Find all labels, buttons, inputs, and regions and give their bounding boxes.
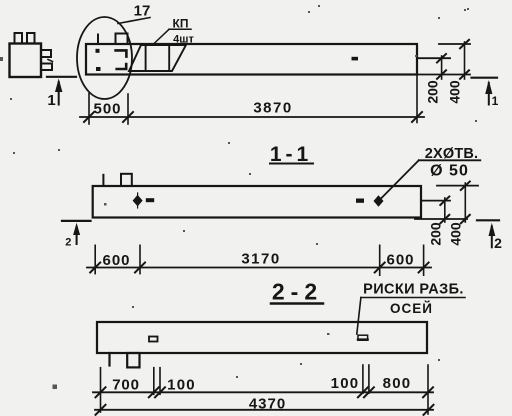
extension line at x=128 xyxy=(127,94,129,124)
svg-text:500: 500 xyxy=(93,101,121,118)
svg-text:3870: 3870 xyxy=(253,100,292,117)
tab lower on end-plate xyxy=(41,64,52,71)
stud left on end-plate xyxy=(15,33,23,44)
svg-text:600: 600 xyxy=(386,252,414,269)
section marker 2 (right) line xyxy=(477,219,499,221)
tick on beam top (1-1) xyxy=(102,175,104,186)
section marker 1 (left) arrow xyxy=(58,82,60,105)
dimension line (top view) xyxy=(80,116,424,118)
section marker 2 (right) arrow xyxy=(491,227,493,248)
svg-text:4370: 4370 xyxy=(249,396,286,413)
bottom extension line (1-1) xyxy=(415,218,467,220)
weld plate inner line 1 xyxy=(145,45,147,71)
step extension line (1-1 right end) xyxy=(421,200,450,202)
leader line to hole label xyxy=(379,160,419,201)
anchor dot upper xyxy=(96,49,100,53)
embed dash mark (top view right) xyxy=(352,57,359,61)
dim 400 line (top view) xyxy=(464,42,466,79)
mark rectangle (riska) xyxy=(358,335,368,340)
detail ellipse xyxy=(77,17,132,99)
step extension line (top view right end) xyxy=(417,57,450,59)
svg-text:800: 800 xyxy=(383,375,412,392)
end-plate cross-section (top-left) xyxy=(10,44,42,78)
small square on beam top (in detail) xyxy=(116,34,128,45)
ticks (2-2 row1) xyxy=(96,387,106,397)
svg-text:2: 2 xyxy=(65,237,71,249)
stud right on end-plate xyxy=(27,33,35,44)
leader line to mark xyxy=(357,298,361,335)
small mark between tabs xyxy=(48,60,53,62)
svg-text:400: 400 xyxy=(447,80,463,104)
extension line at 95 xyxy=(94,245,96,273)
extension line at 153.8 xyxy=(153,368,155,395)
dim 200 line (top view) xyxy=(441,56,443,79)
ticks (1-1 dims) xyxy=(90,263,100,273)
extension line at x=89 xyxy=(88,94,90,125)
top extension line xyxy=(439,43,470,45)
hook mark lower xyxy=(117,64,127,69)
svg-text:700: 700 xyxy=(112,377,139,394)
weld plate KP parallelogram xyxy=(129,45,186,71)
section marker 2 (left) line xyxy=(62,220,91,222)
hook mark upper xyxy=(116,50,127,56)
extension line at 423.6 xyxy=(423,245,425,275)
svg-text:2: 2 xyxy=(494,235,502,251)
beam section 2-2 xyxy=(97,322,427,353)
extension line at 379.7 xyxy=(379,245,381,275)
dimension line row 2 (2-2) xyxy=(95,409,433,411)
extension line at 160 xyxy=(159,368,161,395)
tick below beam (2-2) xyxy=(108,353,110,366)
tick at 417 xyxy=(412,112,422,122)
svg-text:ОСЕЙ: ОСЕЙ xyxy=(390,301,433,316)
dim 200 line (1-1) xyxy=(444,198,446,222)
svg-text:РИСКИ РАЗБ.: РИСКИ РАЗБ. xyxy=(363,282,464,298)
svg-text:200: 200 xyxy=(425,80,441,104)
svg-text:Ø 50: Ø 50 xyxy=(430,163,469,180)
ticks (2-2 row2) xyxy=(96,405,106,415)
beam section 1-1 xyxy=(93,186,421,218)
svg-text:1: 1 xyxy=(47,92,55,109)
svg-text:КП: КП xyxy=(173,16,189,30)
svg-text:100: 100 xyxy=(331,375,360,392)
section marker 1 (right) line xyxy=(472,77,498,79)
small square on beam top (1-1) xyxy=(121,174,132,186)
section marker 2 (left) arrow xyxy=(76,227,78,244)
beam elevation (top view) xyxy=(86,44,417,75)
extension line at 362.9 xyxy=(362,365,364,393)
extension line at x=417 xyxy=(416,75,418,123)
tick on beam top (in detail) xyxy=(97,35,99,45)
extension line at 368.9 xyxy=(368,365,370,393)
diamond mark right / leader arrowhead (1-1) xyxy=(374,195,384,207)
svg-text:17: 17 xyxy=(134,3,151,20)
svg-text:1: 1 xyxy=(492,94,499,108)
diamond mark left (1-1) xyxy=(133,195,143,207)
top extension line (1-1) xyxy=(437,185,478,187)
svg-text:400: 400 xyxy=(448,222,464,246)
dimension line (1-1) xyxy=(87,267,431,269)
bottom extension line xyxy=(417,74,470,76)
anchor dot lower xyxy=(96,67,101,71)
dash mark left (1-1) xyxy=(146,198,154,202)
tick at 128 xyxy=(123,112,133,122)
tab upper on end-plate xyxy=(41,50,51,57)
extension line at 428 xyxy=(427,365,429,414)
svg-text:2-2: 2-2 xyxy=(272,279,323,305)
tick at 89 xyxy=(84,112,94,122)
dimension line row 1 (2-2) xyxy=(93,391,433,393)
svg-text:200: 200 xyxy=(428,222,444,246)
dash mark right (1-1) xyxy=(356,199,364,203)
small mark inside (2-2 left) xyxy=(149,337,158,342)
weld plate inner line 2 xyxy=(168,45,170,71)
svg-text:3170: 3170 xyxy=(241,250,280,267)
dim 400 line (1-1) xyxy=(464,183,466,222)
svg-text:100: 100 xyxy=(167,377,196,394)
section marker 1 (left) line xyxy=(47,76,76,78)
square below beam (2-2) xyxy=(127,353,139,367)
section marker 1 (right) arrow xyxy=(488,83,490,105)
extension line at 100.5 xyxy=(100,368,102,412)
label 17 leader xyxy=(118,18,150,24)
extension line at 140 xyxy=(139,245,141,273)
svg-text:600: 600 xyxy=(102,252,130,269)
